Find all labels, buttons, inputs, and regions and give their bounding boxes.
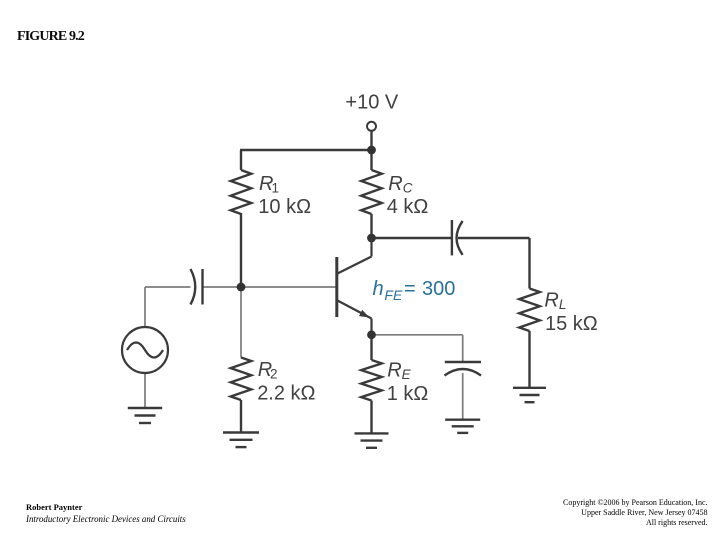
svg-text:10 kΩ: 10 kΩ xyxy=(258,196,311,218)
svg-text:h: h xyxy=(373,278,384,300)
svg-text:1: 1 xyxy=(272,181,280,196)
svg-text:4 kΩ: 4 kΩ xyxy=(387,196,429,218)
svg-text:300: 300 xyxy=(422,278,455,300)
svg-text:1 kΩ: 1 kΩ xyxy=(387,383,429,405)
svg-text:2: 2 xyxy=(270,367,278,382)
svg-text:15 kΩ: 15 kΩ xyxy=(545,313,598,335)
svg-text:RC: RC xyxy=(388,173,412,196)
svg-text:=: = xyxy=(404,278,416,300)
svg-text:2.2 kΩ: 2.2 kΩ xyxy=(257,382,315,404)
svg-text:+10 V: +10 V xyxy=(345,91,398,113)
svg-text:RL: RL xyxy=(544,290,566,313)
svg-text:FE: FE xyxy=(384,287,403,303)
svg-text:RE: RE xyxy=(387,360,411,383)
